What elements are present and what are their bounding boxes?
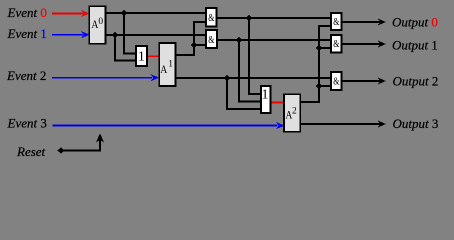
svg-text:Event 2: Event 2 [6,68,46,83]
AND gate R2 [331,35,342,53]
wire A1 top output up x194 [176,22,207,55]
svg-text:&: & [208,13,214,24]
junction node on A1 bottom output at (227,78) [224,75,231,81]
wire branch x124 down to merge1 [124,13,136,54]
svg-text:Output 2: Output 2 [393,74,439,89]
Output 0 wire [342,21,381,23]
svg-text:&: & [333,77,339,88]
junction node on A2 output riser at (319,86) [316,83,323,89]
junction node on A0 bottom output at (115,35) [112,32,119,38]
wire branch x239 down to merge2 input2 [239,40,261,102]
svg-text:2: 2 [292,107,297,117]
svg-text:Output 1: Output 1 [392,38,438,53]
Output 3 wire [301,123,381,125]
svg-text:1: 1 [168,60,173,70]
svg-text:1: 1 [138,49,145,64]
svg-text:Event 1: Event 1 [7,26,47,41]
svg-text:A: A [160,62,167,76]
junction node on AND-L2 output at (239,40) [236,37,243,43]
AND gate L2 [206,30,217,48]
svg-text:1: 1 [262,87,269,102]
arbiter cell A2 [284,94,300,131]
svg-text:Event 0: Event 0 [7,5,47,20]
Event 2 input wire (blue) [52,77,152,79]
wire branch to AND-R2 second input y48 [319,47,331,49]
wire branch x227 down to merge2 input3 [227,78,261,109]
reset diamond [57,147,64,153]
Reset wire with junction and up arrow [61,140,100,151]
wire A0 top output y13 [106,12,206,14]
wire branch to AND-R3 second input y86 [319,85,331,87]
svg-text:&: & [333,39,339,50]
junction node on AND-L1 output at (249,18) [246,15,253,21]
wire branch x249 down to merge2 input1 [249,18,261,94]
svg-text:Output 3: Output 3 [393,116,439,131]
Event 3 input wire (blue) [53,125,278,127]
reset up arrow [96,133,104,142]
Event 1 input wire (blue) [52,34,83,36]
arbiter cell A0 [89,6,105,44]
AND gate R1 [331,13,342,30]
merge element 1 (between A0 and A1) [136,46,147,66]
junction node on A1 top output riser at (194,45) [191,42,198,48]
junction node on A2 output riser at (319,48) [316,45,323,51]
wire A2 output to riser x319 [301,26,332,102]
wire A0 bottom output y35 [106,34,206,36]
wire AND-L2 output y40 [217,39,331,41]
wire merge2 to A2 (red) [271,102,285,104]
Output 1 wire [342,43,381,45]
wire branch x115 down to merge1 [115,35,136,61]
svg-text:Reset: Reset [16,144,46,159]
wire merge1 to A1 (red) [147,55,159,57]
svg-text:&: & [208,35,214,46]
arbiter cell A1 [159,43,175,86]
svg-text:Output 0: Output 0 [392,15,438,30]
wire AND-L1 output y18 [217,17,332,19]
wire A1 bottom output y78 [176,77,332,79]
Output 2 wire [342,80,381,82]
svg-text:&: & [333,17,339,28]
junction node on A0 top output at (124,13) [121,10,128,16]
wire branch to AND-L2 second input y45 [194,44,206,46]
Event 0 input wire (red) [52,13,83,15]
AND gate R3 [331,72,342,90]
merge element 1 (before A2) [261,86,271,113]
svg-text:0: 0 [98,17,103,27]
svg-text:Event 3: Event 3 [7,116,47,131]
AND gate L1 [206,8,217,27]
